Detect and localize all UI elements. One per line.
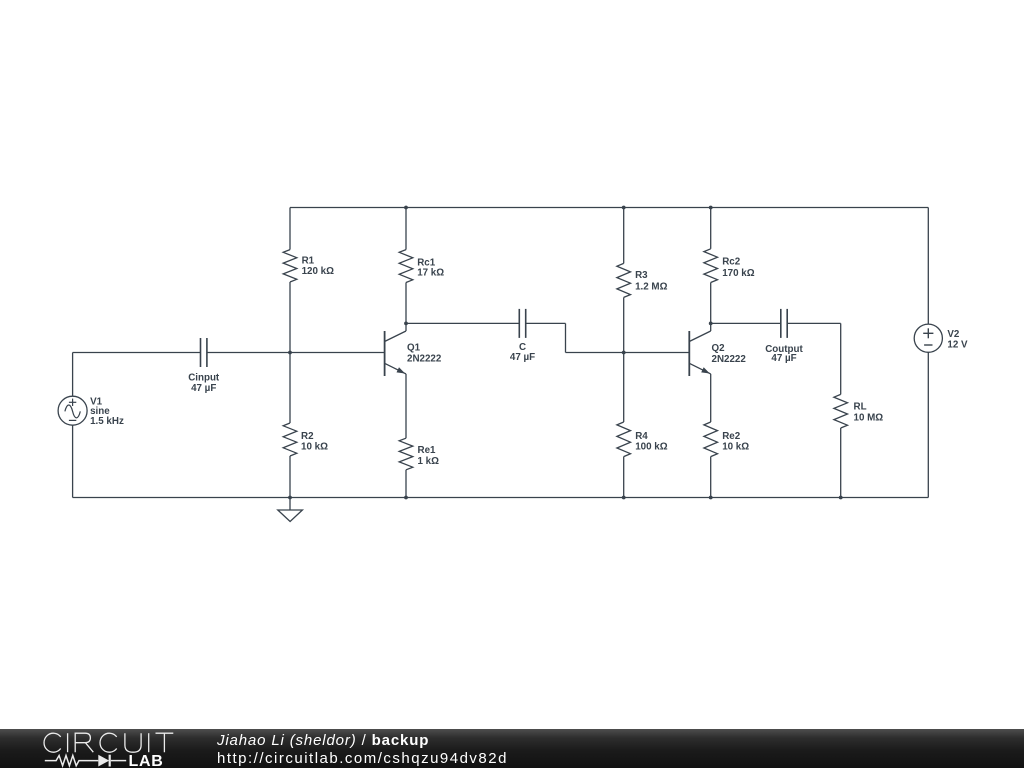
svg-text:Re1: Re1 <box>418 445 437 456</box>
resistor Re2 <box>704 422 718 457</box>
svg-text:LAB: LAB <box>129 753 164 769</box>
svg-text:1.5 kHz: 1.5 kHz <box>90 416 124 427</box>
node B (Q2 base divider) <box>622 351 626 355</box>
node Q2 collector <box>709 322 713 326</box>
wire Q2 emitter to Re2 <box>710 374 712 422</box>
logo resistor-diode glyph <box>45 756 99 766</box>
svg-text:2N2222: 2N2222 <box>407 354 442 365</box>
node Rc1 top rail junction <box>404 206 408 210</box>
svg-text:R2: R2 <box>301 431 314 442</box>
svg-text:1 kΩ: 1 kΩ <box>418 456 440 467</box>
node Re2 ground junction <box>709 496 713 500</box>
wire V2 bottom lead <box>927 352 929 497</box>
node Rc2 top rail junction <box>709 206 713 210</box>
wire V1 bottom lead <box>72 425 74 497</box>
svg-text:170 kΩ: 170 kΩ <box>722 268 755 279</box>
svg-text:Rc2: Rc2 <box>722 257 741 268</box>
node A (Q1 base divider) <box>288 351 292 355</box>
node Q1 collector <box>404 322 408 326</box>
resistor R2 <box>289 353 291 424</box>
svg-text:RL: RL <box>854 402 867 413</box>
node R4 ground junction <box>622 496 626 500</box>
capacitor Coutput <box>780 309 782 338</box>
svg-text:Q2: Q2 <box>712 343 726 354</box>
svg-text:12 V: 12 V <box>947 340 968 351</box>
svg-text:120 kΩ: 120 kΩ <box>302 266 335 277</box>
resistor R3 <box>623 208 625 264</box>
wire C to bend <box>526 322 566 324</box>
wire Cinput to node A <box>207 352 290 354</box>
svg-text:Q1: Q1 <box>407 343 421 354</box>
wire Q2 collector to Coutput <box>711 322 781 324</box>
capacitor Cinput <box>200 338 202 367</box>
svg-text:17 kΩ: 17 kΩ <box>417 267 444 278</box>
resistor Rc2 <box>710 208 712 249</box>
wire bend to node B <box>566 352 624 354</box>
wire V2 top lead <box>927 208 929 325</box>
resistor R4 <box>623 353 625 423</box>
svg-text:R3: R3 <box>635 270 648 281</box>
wire ground stub <box>289 498 291 511</box>
wire Q1 collector to C <box>406 322 519 324</box>
resistor Re1 <box>399 438 413 470</box>
svg-text:10 kΩ: 10 kΩ <box>301 441 328 452</box>
wire Coutput to RL <box>787 322 841 324</box>
svg-text:1.2 MΩ: 1.2 MΩ <box>635 281 668 292</box>
wire Q1 emitter to Re1 <box>405 374 407 438</box>
voltage source V2 (12 V) <box>914 324 942 352</box>
resistor Rc1 <box>405 208 407 250</box>
node RL ground junction <box>839 496 843 500</box>
svg-text:10 MΩ: 10 MΩ <box>854 412 884 423</box>
svg-text:2N2222: 2N2222 <box>712 354 747 365</box>
svg-text:Re2: Re2 <box>722 431 741 442</box>
voltage source V1 (sine) <box>58 396 87 425</box>
ground <box>278 510 303 522</box>
capacitor C <box>518 309 520 338</box>
svg-text:10 kΩ: 10 kΩ <box>722 442 749 453</box>
transistor Q2 (2N2222) <box>688 331 690 376</box>
svg-text:47 µF: 47 µF <box>771 353 796 364</box>
footer text <box>217 733 508 767</box>
CircuitLab logo <box>40 729 180 769</box>
wire V1 to Cinput <box>73 352 201 354</box>
wire node A to Q1 base <box>290 352 385 354</box>
wire V1 top lead <box>72 353 74 397</box>
svg-text:47 µF: 47 µF <box>510 352 535 363</box>
transistor Q1 (2N2222) <box>384 331 386 376</box>
wire bottom ground rail <box>73 497 929 499</box>
wire top supply rail <box>290 207 928 209</box>
resistor R1 <box>289 208 291 250</box>
node R3 top rail junction <box>622 206 626 210</box>
svg-text:R1: R1 <box>302 255 315 266</box>
wire node B to Q2 base <box>624 352 690 354</box>
svg-text:R4: R4 <box>635 431 648 442</box>
svg-text:100 kΩ: 100 kΩ <box>635 442 668 453</box>
resistor RL <box>840 323 842 394</box>
node Re1 ground junction <box>404 496 408 500</box>
node ground junction <box>288 496 292 500</box>
svg-text:V2: V2 <box>947 329 960 340</box>
svg-text:47 µF: 47 µF <box>191 383 216 394</box>
